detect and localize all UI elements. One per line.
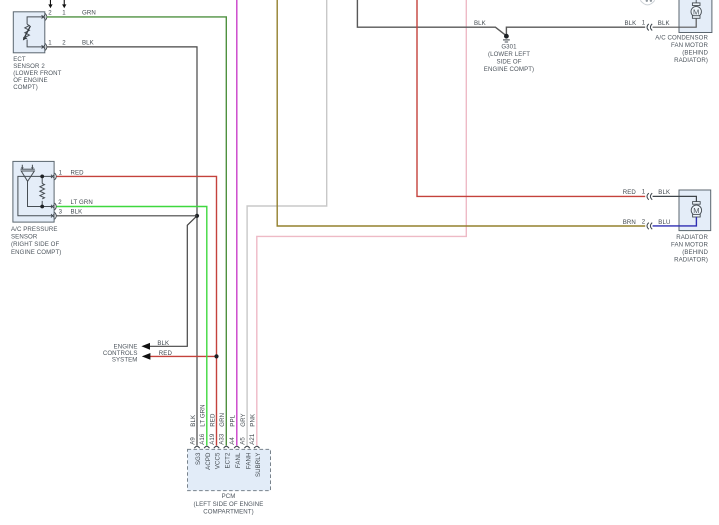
svg-text:A16: A16: [199, 433, 206, 445]
svg-text:BLK: BLK: [157, 340, 169, 347]
pressure transducer triangle: [21, 165, 35, 182]
svg-text:RADIATOR: RADIATOR: [676, 234, 708, 241]
wire BLK (junction down to PCM A9 SG3): [196, 216, 198, 446]
PCM pin connector arc A21: [254, 446, 259, 448]
svg-text:GRY: GRY: [240, 413, 247, 426]
svg-text:(LOWER LEFT: (LOWER LEFT: [488, 51, 530, 58]
ground G301 symbol: [503, 40, 510, 42]
wire BLK condenser fan (after connector, into box to motor): [653, 18, 697, 27]
condenser motor M symbol: [691, 0, 701, 18]
inline connector radiator fan pin 1: [647, 193, 652, 200]
svg-text:PNK: PNK: [250, 414, 257, 427]
radiator motor M symbol: [691, 202, 701, 217]
svg-text:RADIATOR): RADIATOR): [674, 257, 708, 264]
svg-text:(BEHIND: (BEHIND: [682, 50, 708, 57]
pressure sensor connector pin 1: [51, 173, 56, 180]
pressure sensor connector pin 2: [51, 203, 56, 210]
arrowhead RED engine controls: [142, 353, 151, 360]
svg-text:ACPD: ACPD: [205, 452, 212, 470]
wire PNK (SUBRLY to PCM A21): [257, 0, 467, 446]
faint cut-off component at top edge: [640, 0, 655, 5]
wire RED (VCC5 to PCM A19): [57, 176, 217, 445]
wire GRN (ECT2 signal to PCM A33): [47, 17, 227, 446]
svg-text:FAN MOTOR: FAN MOTOR: [671, 242, 709, 249]
svg-text:FANL: FANL: [235, 452, 242, 468]
svg-text:BLK: BLK: [625, 20, 637, 27]
svg-text:SYSTEM: SYSTEM: [112, 356, 138, 363]
svg-text:FAN MOTOR: FAN MOTOR: [671, 42, 709, 49]
svg-text:SG3: SG3: [195, 452, 202, 465]
PCM pin connector arc A5: [244, 446, 249, 448]
A/C condenser fan motor box: [679, 0, 712, 33]
svg-text:A21: A21: [249, 433, 256, 445]
junction dot pressure sensor top: [40, 175, 44, 179]
svg-text:BLK: BLK: [82, 39, 94, 46]
svg-text:M: M: [693, 7, 699, 16]
PCM pin connector arc A9: [194, 446, 199, 448]
wire RED branch to engine controls: [149, 355, 216, 357]
wire BLK jog to engine controls: [149, 216, 197, 346]
svg-text:RED: RED: [623, 189, 637, 196]
svg-text:A19: A19: [209, 433, 216, 445]
svg-text:1: 1: [62, 9, 66, 16]
svg-text:COMPT): COMPT): [13, 84, 38, 91]
svg-text:COMPARTMENT): COMPARTMENT): [203, 508, 253, 515]
junction dot RED: [214, 354, 218, 358]
PCM pin connector arc A16: [204, 446, 209, 448]
wire PPL (FANL to PCM A4): [236, 0, 238, 446]
svg-text:SIDE OF: SIDE OF: [496, 58, 521, 65]
PCM pin connector arc A4: [234, 446, 239, 448]
svg-text:RED: RED: [209, 413, 216, 427]
svg-text:2: 2: [58, 199, 62, 206]
svg-text:G301: G301: [501, 43, 517, 50]
svg-text:(LEFT SIDE OF ENGINE: (LEFT SIDE OF ENGINE: [194, 501, 264, 508]
wire RED radiator fan power: [417, 0, 645, 196]
inline connector condenser fan: [647, 24, 652, 31]
svg-text:A33: A33: [219, 433, 226, 445]
PCM box (dashed): [188, 449, 271, 490]
svg-text:ENGINE COMPT): ENGINE COMPT): [11, 249, 61, 256]
junction dot BLK: [195, 214, 199, 218]
svg-text:A/C CONDENSOR: A/C CONDENSOR: [655, 35, 708, 42]
svg-text:1: 1: [48, 39, 52, 46]
PCM pin connector arc A33: [224, 446, 229, 448]
svg-text:BLK: BLK: [658, 189, 670, 196]
pressure sensor connector pin 3: [51, 212, 56, 219]
wire LT GRN (ACPD to PCM A16): [57, 207, 207, 446]
junction dot pressure sensor bottom: [40, 205, 44, 209]
svg-text:ECT2: ECT2: [225, 452, 232, 468]
A/C pressure sensor internal wiring: [18, 176, 53, 215]
wire BLU into radiator fan motor: [653, 217, 697, 226]
PCM pin connector arc A19: [214, 446, 219, 448]
wire BLK into radiator fan motor: [653, 196, 697, 201]
svg-text:A5: A5: [239, 437, 246, 445]
radiator fan motor box: [679, 190, 711, 231]
ECT connector pin 1 (x and arc): [42, 43, 47, 50]
svg-text:FANH: FANH: [245, 453, 252, 470]
svg-text:BLK: BLK: [658, 20, 670, 27]
svg-text:BLK: BLK: [71, 209, 83, 216]
arrowhead BLK engine controls: [141, 343, 150, 350]
svg-text:3: 3: [59, 209, 63, 216]
svg-text:RADIATOR): RADIATOR): [674, 57, 708, 64]
wire BLK (pressure sensor pin 3 to junction): [57, 215, 198, 217]
wire BLK (ECT ground down to junction): [47, 47, 197, 216]
resistor R (pressure sensor) zigzag: [40, 184, 45, 199]
svg-text:PPL: PPL: [230, 414, 237, 426]
ground G301 dot: [504, 34, 509, 39]
svg-text:BLU: BLU: [658, 219, 670, 226]
ECT sensor 2 internal wiring: [27, 17, 43, 47]
thermistor R (ECT) zigzag: [25, 24, 30, 38]
svg-text:RED: RED: [71, 169, 85, 176]
svg-text:LT GRN: LT GRN: [71, 199, 93, 206]
off-page arrow (left): [48, 0, 52, 8]
svg-text:A9: A9: [189, 437, 196, 445]
svg-text:M: M: [693, 206, 699, 215]
svg-text:BLK: BLK: [474, 20, 486, 27]
svg-text:ENGINE COMPT): ENGINE COMPT): [484, 66, 534, 73]
svg-text:2: 2: [62, 39, 66, 46]
svg-text:SENSOR: SENSOR: [11, 234, 38, 241]
svg-text:2: 2: [642, 219, 646, 226]
svg-text:RED: RED: [159, 350, 173, 357]
svg-text:2: 2: [48, 9, 52, 16]
svg-text:GRN: GRN: [82, 9, 96, 16]
ECT connector pin 2 (x and arc): [42, 13, 47, 20]
svg-text:BLK: BLK: [190, 415, 197, 427]
ECT sensor 2 box: [13, 12, 45, 53]
svg-text:1: 1: [642, 20, 646, 27]
thermistor arrow (ECT): [23, 26, 31, 41]
svg-text:VCC5: VCC5: [215, 452, 222, 469]
svg-text:PCM: PCM: [222, 493, 236, 500]
svg-text:1: 1: [642, 189, 646, 196]
wire BRN radiator fan low: [277, 0, 645, 226]
svg-text:(RIGHT SIDE OF: (RIGHT SIDE OF: [11, 241, 60, 248]
svg-text:SUBRLY: SUBRLY: [255, 453, 262, 478]
wire GRY (FANH to PCM A5): [247, 0, 327, 446]
svg-text:GRN: GRN: [219, 413, 226, 427]
inline connector radiator fan pin 2: [647, 223, 652, 230]
svg-text:A/C PRESSURE: A/C PRESSURE: [11, 226, 58, 233]
svg-text:BRN: BRN: [623, 219, 636, 226]
off-page arrow (right): [62, 0, 66, 8]
A/C pressure sensor box: [13, 161, 54, 222]
svg-text:LT GRN: LT GRN: [200, 404, 207, 426]
svg-text:A4: A4: [229, 437, 236, 445]
svg-text:(BEHIND: (BEHIND: [682, 249, 708, 256]
svg-text:1: 1: [59, 169, 63, 176]
wire BLK condenser fan ground: [357, 0, 645, 36]
